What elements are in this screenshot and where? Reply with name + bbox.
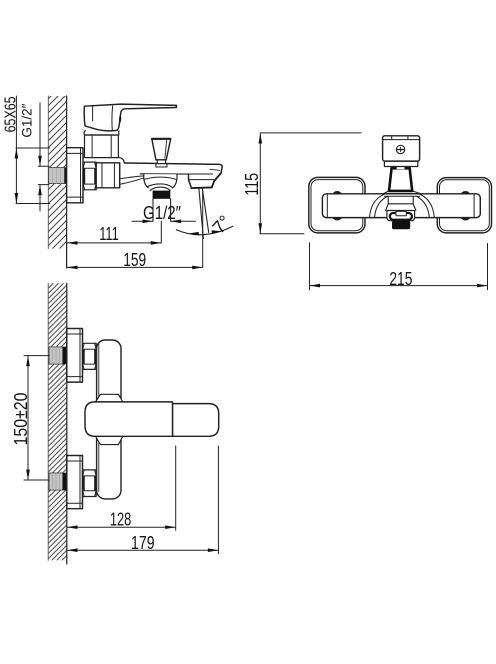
svg-text:215: 215	[389, 269, 412, 289]
svg-text:G1/2″: G1/2″	[18, 104, 34, 138]
svg-text:G1/2″: G1/2″	[143, 203, 182, 223]
svg-text:150±20: 150±20	[11, 393, 31, 446]
svg-text:115: 115	[242, 173, 262, 196]
svg-text:179: 179	[131, 533, 155, 553]
svg-text:128: 128	[110, 510, 132, 530]
svg-text:65X65: 65X65	[2, 96, 19, 132]
svg-text:159: 159	[123, 250, 146, 270]
svg-text:111: 111	[99, 224, 119, 244]
